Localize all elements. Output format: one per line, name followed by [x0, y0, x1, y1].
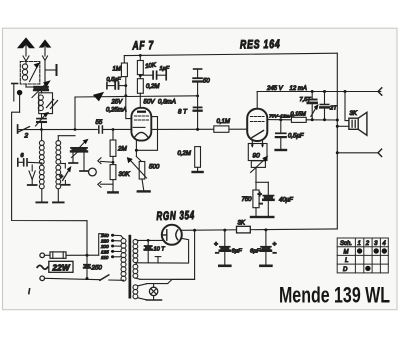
- table switch positions: [337, 238, 388, 273]
- switch S2 (wave band): [18, 125, 30, 133]
- svg-text:2: 2: [24, 133, 29, 140]
- mains terminal lower: [40, 276, 45, 281]
- choke 7.5T: [308, 92, 318, 120]
- phono jack lower: [98, 182, 113, 188]
- svg-text:250: 250: [91, 265, 103, 272]
- node J3: [112, 128, 115, 131]
- svg-text:0,15M: 0,15M: [291, 112, 307, 118]
- wire cap to coil box: [41, 90, 43, 93]
- table dots: [357, 248, 387, 271]
- svg-text:1M: 1M: [113, 67, 121, 73]
- adjustable core arrow L3: [28, 165, 37, 185]
- capacitor C8 1uF: [140, 70, 166, 79]
- label ~: [37, 265, 47, 269]
- tuned coil L2 (box with switch contacts): [38, 93, 57, 114]
- band filter coil L4: [56, 141, 61, 203]
- banana plug (earth): [17, 90, 21, 112]
- svg-text:200: 200: [100, 244, 109, 249]
- resistor R7 0.2M (grid leak RES): [195, 147, 201, 172]
- svg-text:220: 220: [100, 239, 109, 244]
- antenna A1 (large arrow): [19, 39, 34, 62]
- node J16: [311, 118, 314, 121]
- svg-text:55: 55: [96, 120, 103, 126]
- svg-text:110: 110: [101, 255, 109, 260]
- terminal stub top: [194, 69, 202, 78]
- node J23: [264, 228, 267, 231]
- capacitor C16 250 (mains): [84, 265, 90, 268]
- capacitor C12 0.5uF: [276, 120, 286, 150]
- node J26: [86, 277, 89, 280]
- svg-text:25V: 25V: [111, 100, 124, 106]
- dial lamp winding bars: [138, 284, 168, 300]
- wire RES anode up: [256, 92, 258, 109]
- svg-text:AF 7: AF 7: [132, 38, 155, 52]
- svg-text:2: 2: [365, 241, 370, 247]
- node J18: [336, 119, 339, 122]
- node J2: [74, 128, 77, 131]
- svg-text:0,2M: 0,2M: [178, 151, 191, 157]
- svg-text:0,2M: 0,2M: [146, 84, 159, 90]
- wire AF7 cathode loop: [136, 117, 157, 157]
- node J7: [139, 54, 142, 57]
- wire AF7 anode to grid RES: [151, 128, 247, 130]
- capacitor 2T: [320, 92, 329, 120]
- wire mains lower: [45, 278, 100, 279]
- wire heater line: [137, 238, 189, 263]
- tube V1 AF7: [131, 108, 151, 141]
- svg-text:D: D: [343, 267, 348, 273]
- mains switch: [100, 275, 124, 281]
- tube V2 RES164: [247, 109, 267, 148]
- switch contact on L4: [61, 164, 71, 185]
- wire HV to anode RGN: [138, 239, 164, 241]
- svg-text:6µF: 6µF: [232, 249, 243, 255]
- wire RES output line: [267, 119, 291, 121]
- ground G6: [251, 216, 261, 218]
- table labels: [340, 241, 386, 273]
- dial lamp: [149, 284, 157, 300]
- terminal speaker upper: [378, 88, 382, 95]
- node J20: [336, 151, 339, 154]
- svg-text:1: 1: [358, 241, 361, 247]
- svg-text:+: +: [258, 192, 262, 199]
- resistor R4 10K: [137, 55, 143, 78]
- transformer T1 core: [129, 235, 132, 299]
- svg-text:−: −: [259, 201, 263, 208]
- ground G4: [138, 190, 150, 192]
- node J10: [135, 149, 138, 152]
- node J6: [112, 161, 115, 164]
- svg-text:RGN 354: RGN 354: [156, 208, 195, 223]
- ground G1: [108, 191, 117, 193]
- capacitor C15 10T: [145, 240, 152, 263]
- svg-text:90: 90: [253, 153, 261, 160]
- antenna coil L1 (dashed box with coil and trimmer arrow): [20, 61, 40, 84]
- svg-text:8 T: 8 T: [178, 109, 188, 116]
- svg-text:3K: 3K: [350, 111, 358, 117]
- node J1: [40, 128, 43, 131]
- resistor R1 2M: [110, 130, 116, 165]
- transformer lamp secondary: [133, 285, 138, 299]
- svg-text:12 mA: 12 mA: [290, 86, 307, 92]
- svg-text:3K: 3K: [238, 221, 246, 227]
- node J14: [323, 90, 326, 93]
- resistor R3 1M: [121, 56, 127, 96]
- svg-text:50V 0,8mA: 50V 0,8mA: [144, 99, 176, 106]
- ground G7: [263, 216, 273, 218]
- ground G3: [53, 201, 64, 203]
- phono jack upper: [98, 158, 113, 164]
- svg-text:7,5T: 7,5T: [300, 97, 312, 103]
- tap labels: [100, 233, 109, 260]
- wire coupling line (with tuning gang arrow): [75, 93, 198, 130]
- resistor R2 30K: [110, 165, 116, 192]
- svg-text:L: L: [345, 258, 348, 264]
- wire output to bus: [306, 119, 337, 121]
- node J8: [124, 84, 127, 87]
- capacitor C14 6uF: [261, 230, 271, 266]
- node J12: [279, 118, 282, 121]
- node J15: [344, 90, 347, 93]
- node J21: [193, 229, 196, 232]
- node J19: [336, 125, 339, 128]
- svg-text:0,25mA: 0,25mA: [106, 108, 127, 114]
- wire grid feed AF7: [126, 96, 132, 119]
- svg-text:1µF: 1µF: [160, 66, 170, 72]
- wire speaker feeds: [337, 92, 349, 127]
- wire left earth bus: [12, 112, 87, 221]
- svg-text:2M: 2M: [117, 146, 128, 153]
- wire speaker return: [337, 152, 378, 154]
- ground G2: [36, 201, 47, 203]
- wire B+ line: [181, 229, 338, 230]
- svg-text:2T: 2T: [329, 106, 337, 112]
- svg-text:6µF: 6µF: [250, 249, 261, 255]
- potentiometer R6 500: [127, 157, 147, 191]
- svg-text:40µF: 40µF: [279, 198, 293, 204]
- node J22: [223, 229, 226, 232]
- svg-text:−: −: [215, 250, 219, 257]
- earth post: [12, 84, 18, 102]
- svg-text:30K: 30K: [119, 171, 131, 178]
- transformer HV secondary: [133, 239, 138, 262]
- svg-text:22W: 22W: [52, 263, 71, 272]
- phono symbol (circle): [89, 168, 97, 176]
- trimmer capacitors C4 C5 (pair with arrows): [58, 136, 88, 171]
- ground G9: [219, 264, 230, 267]
- loudspeaker LS: [349, 112, 367, 135]
- capacitor C13 6uF: [220, 230, 230, 265]
- box 90 (backcoupling): [248, 144, 267, 173]
- svg-text:Mende 139 WL: Mende 139 WL: [279, 283, 390, 308]
- capacitor C9 50pF: [193, 78, 202, 129]
- ground G5: [193, 171, 203, 173]
- svg-text:0,1M: 0,1M: [217, 119, 230, 125]
- variable capacitor C1 (tuning, with arrow): [26, 81, 50, 97]
- node J24: [147, 239, 150, 242]
- node J5: [196, 95, 199, 98]
- fuse F1: [40, 252, 99, 258]
- tube V3 RGN354: [162, 225, 182, 245]
- svg-text:125: 125: [101, 249, 109, 254]
- node J9: [139, 74, 142, 77]
- resistor R8 0.1M: [214, 126, 229, 132]
- svg-text:RES 164: RES 164: [240, 37, 281, 52]
- node J13: [311, 90, 314, 93]
- selector feed wire: [99, 234, 104, 256]
- resistor R11 3K: [237, 226, 251, 233]
- node J4: [124, 94, 127, 97]
- wire anode supply line: [257, 91, 381, 93]
- antenna A2 (small arrow): [40, 41, 50, 61]
- svg-text:+: +: [60, 175, 64, 181]
- svg-text:500: 500: [149, 164, 160, 171]
- svg-text:0,5µF: 0,5µF: [288, 134, 304, 140]
- resistor R10 0.15M: [291, 117, 306, 122]
- capacitor C7 0.5uF (grid): [107, 82, 126, 89]
- wire antenna drop: [44, 61, 46, 87]
- wire main grid line left: [19, 128, 132, 130]
- svg-text:10 T: 10 T: [154, 247, 166, 253]
- ground G10: [260, 264, 271, 267]
- svg-text:50: 50: [203, 79, 210, 85]
- resistor R9 750: [253, 190, 259, 217]
- capacitor C3 55pF (series in grid line): [98, 126, 103, 133]
- svg-text:245 V: 245 V: [266, 86, 284, 92]
- terminal speaker lower: [378, 149, 382, 156]
- mains voltage taps: [111, 234, 121, 259]
- terminal T1 (antenna jack): [45, 65, 57, 75]
- svg-text:+: +: [273, 241, 277, 248]
- wire right bus vertical: [336, 53, 338, 229]
- svg-text:Sch.: Sch.: [340, 241, 352, 247]
- wire B minus drop: [168, 230, 195, 283]
- node J17: [323, 118, 326, 121]
- svg-text:0,5µF: 0,5µF: [107, 77, 122, 83]
- svg-text:M: M: [344, 250, 349, 256]
- wire cathode chain: [256, 167, 268, 195]
- power rating box 22W: [49, 261, 73, 272]
- resistor R5 0.2M (screen): [137, 79, 143, 108]
- band filter coil L3: [39, 130, 44, 203]
- svg-text:−: −: [273, 250, 277, 257]
- speck mark: [28, 289, 31, 294]
- variable capacitor C2 (padder with arrow): [36, 113, 49, 130]
- ground G8: [276, 149, 286, 151]
- capacitor C11 40uF: [263, 196, 273, 217]
- node J11: [196, 128, 199, 131]
- primary top link: [121, 236, 124, 239]
- wire top supply bus: [124, 53, 337, 55]
- capacitor C6 (coupling, label 6): [18, 159, 42, 167]
- wire mains vertical: [86, 221, 88, 279]
- node J25: [86, 254, 89, 257]
- transformer heater secondary: [133, 263, 195, 280]
- svg-text:+: +: [214, 241, 218, 248]
- capacitor C10 8T: [194, 107, 202, 110]
- svg-text:750: 750: [242, 197, 253, 203]
- transformer primary winding: [121, 239, 126, 282]
